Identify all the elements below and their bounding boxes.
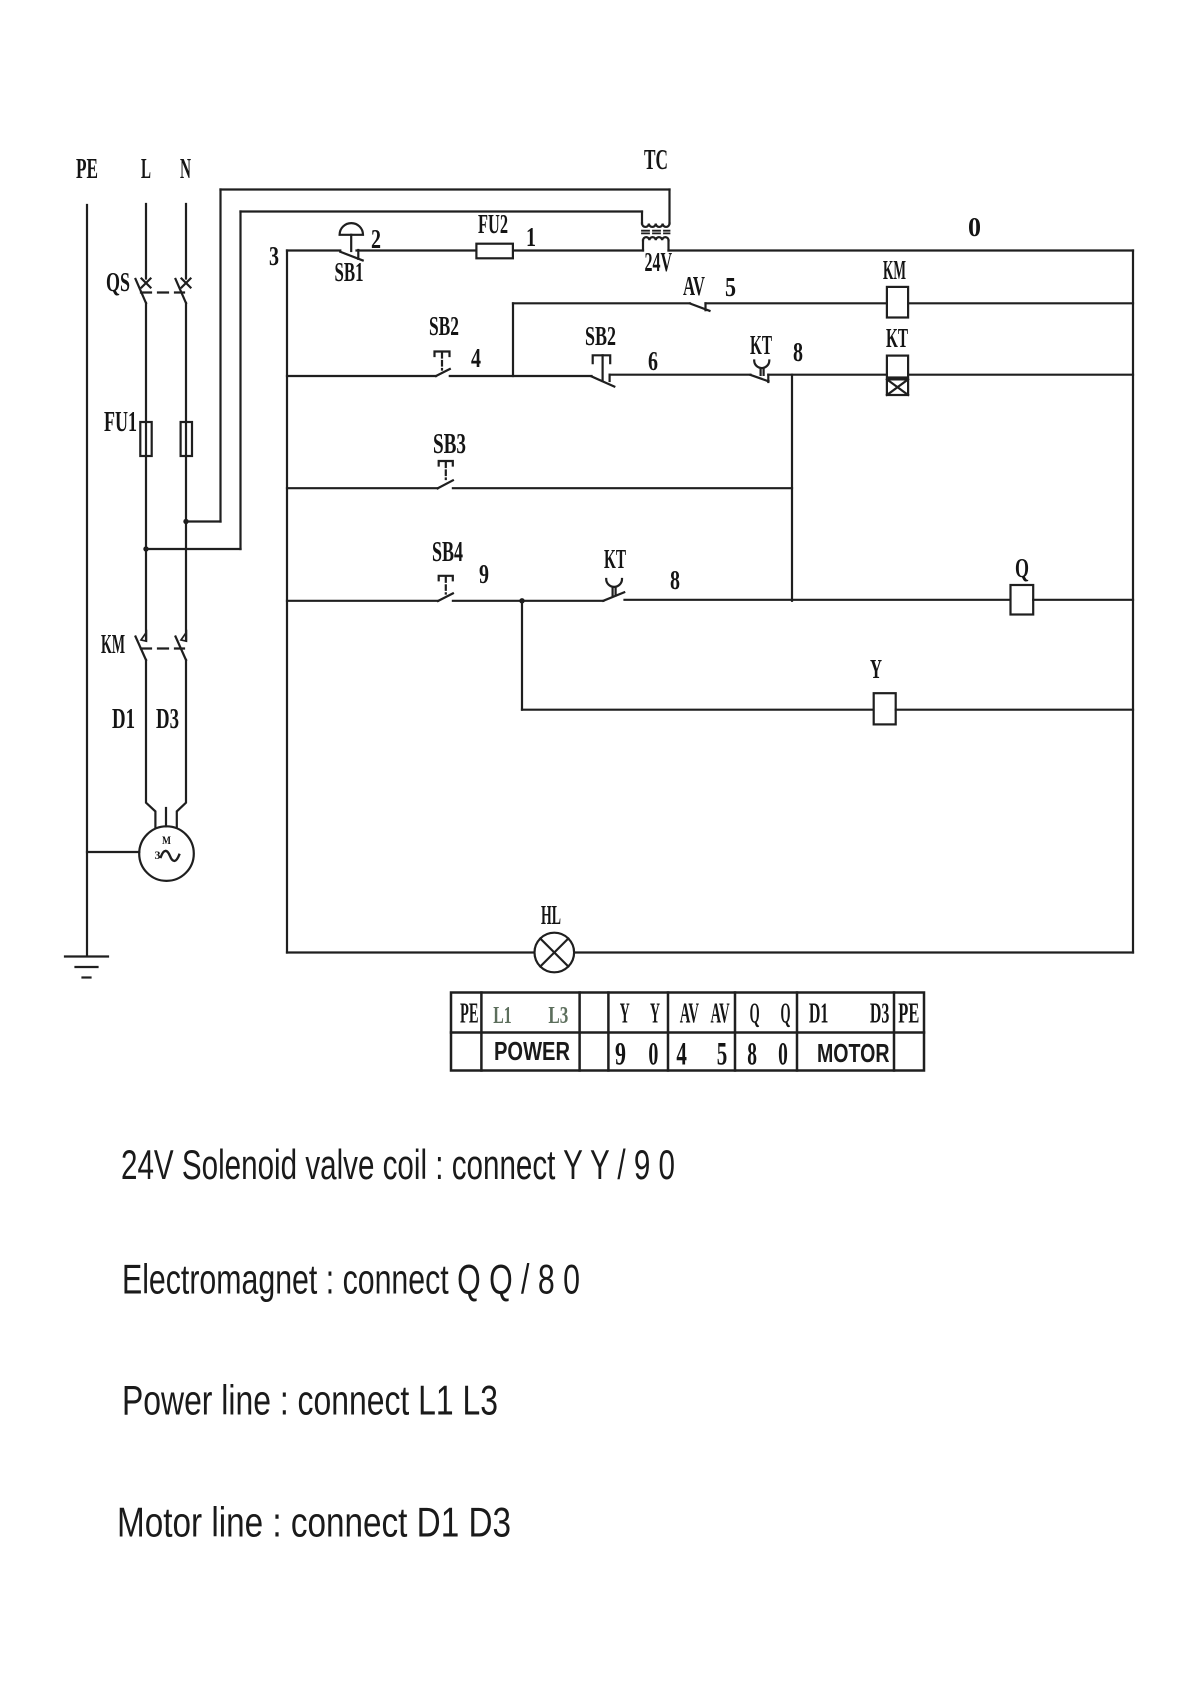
- svg-text:M: M: [162, 833, 171, 847]
- svg-text:5: 5: [725, 272, 736, 302]
- switch QS pole N: [176, 279, 191, 304]
- svg-text:0: 0: [968, 212, 981, 242]
- svg-text:SB4: SB4: [432, 537, 463, 568]
- wire bottom rail left of HL: [287, 951, 535, 953]
- svg-text:8: 8: [747, 1037, 757, 1073]
- wire SB4 row middle: [453, 600, 603, 602]
- svg-text:SB3: SB3: [433, 429, 466, 460]
- svg-text:0: 0: [648, 1037, 658, 1073]
- wire bottom rail right of HL: [574, 951, 1133, 953]
- wire vertical line5 to line4: [512, 303, 514, 376]
- wire line 1 left: [287, 249, 340, 251]
- svg-text:D3: D3: [156, 704, 179, 735]
- svg-text:AV: AV: [711, 999, 730, 1030]
- wire line 4 middle: [450, 375, 592, 377]
- svg-text:8: 8: [670, 565, 680, 595]
- svg-text:6: 6: [648, 346, 658, 376]
- wire SB4 row right: [625, 599, 1011, 601]
- contactor KM mechanical link: [141, 647, 184, 649]
- svg-text:Motor line : connect D1 D: Motor line : connect D1 D3: [117, 1499, 511, 1546]
- wire Y row right: [896, 709, 1133, 711]
- wire PE vertical: [86, 205, 88, 955]
- svg-text:L1: L1: [493, 1003, 511, 1029]
- svg-text:N: N: [180, 154, 191, 185]
- svg-text:L: L: [141, 154, 151, 185]
- wire Q to right rail: [1033, 599, 1133, 601]
- pushbutton SB3 (NO): [438, 461, 453, 488]
- coil KT with delay box: [887, 356, 908, 395]
- svg-text:9: 9: [615, 1037, 626, 1073]
- wire left rail: [286, 251, 288, 953]
- svg-text:24V Solenoid valve coil : con: 24V Solenoid valve coil : connect Y Y / …: [121, 1141, 675, 1188]
- svg-text:D1: D1: [809, 999, 829, 1030]
- svg-text:PE: PE: [76, 154, 98, 185]
- wire line 5 left: [513, 302, 690, 304]
- svg-text:4: 4: [471, 343, 481, 373]
- wire Y row left: [522, 709, 874, 711]
- wire vertical junction column: [791, 375, 793, 601]
- svg-text:AV: AV: [680, 999, 699, 1030]
- svg-text:Q: Q: [781, 999, 791, 1030]
- wire L middle: [145, 303, 147, 641]
- svg-text:8: 8: [793, 337, 803, 367]
- svg-text:SB2: SB2: [585, 321, 616, 351]
- fuse FU1 pole N: [181, 422, 192, 456]
- svg-text:D3: D3: [870, 999, 890, 1030]
- wire motor middle stub: [165, 808, 167, 826]
- wire line 1 middle: [357, 249, 644, 251]
- wire line 6: [610, 374, 751, 376]
- wire D1 to motor: [146, 660, 155, 827]
- solenoid valve Y: [874, 693, 896, 724]
- svg-text:Y: Y: [620, 999, 630, 1030]
- pushbutton SB4 (NO): [438, 576, 453, 601]
- svg-text:D1: D1: [112, 704, 135, 735]
- wire Y branch vertical: [521, 601, 523, 710]
- contactor KM pole L: [136, 632, 147, 660]
- wire top line A: [221, 188, 670, 190]
- svg-text:Y: Y: [870, 654, 882, 684]
- pushbutton SB2 (NO): [435, 352, 450, 377]
- svg-text:5: 5: [717, 1037, 728, 1073]
- wire line 8: [768, 374, 887, 376]
- wire L vertical top: [145, 204, 147, 279]
- svg-text:POWER: POWER: [494, 1036, 570, 1066]
- switch QS mechanical link: [141, 291, 184, 293]
- wire SB3 row right: [453, 487, 792, 489]
- wire line 8 to right rail: [908, 374, 1133, 376]
- fuse FU1 pole L: [140, 422, 151, 456]
- pushbutton SB2 second (NC): [592, 355, 615, 386]
- svg-text:FU2: FU2: [478, 209, 508, 239]
- wire top line B: [241, 210, 643, 212]
- svg-text:PE: PE: [460, 999, 479, 1030]
- wire right rail: [1132, 251, 1134, 953]
- wire N middle: [185, 303, 187, 641]
- wire L branch right: [146, 548, 241, 550]
- coil KM: [887, 287, 908, 318]
- svg-text:KM: KM: [883, 255, 906, 285]
- wire line 4 left: [287, 375, 436, 377]
- motor M: [139, 826, 194, 881]
- svg-text:TC: TC: [644, 145, 668, 176]
- timer contact KT2 (NO delayed): [603, 579, 624, 601]
- wire line 0: [669, 249, 1134, 251]
- svg-text:Power line : connect L1 L3: Power line : connect L1 L3: [122, 1377, 498, 1424]
- pushbutton SB1 (NC mushroom): [340, 223, 363, 260]
- node junction on L: [143, 546, 148, 551]
- node junction Y branch: [519, 598, 524, 603]
- svg-text:9: 9: [479, 559, 489, 589]
- fuse FU2: [476, 244, 513, 259]
- wire PE to motor: [87, 851, 139, 853]
- wire N vertical top: [185, 204, 187, 279]
- wire N branch right: [186, 520, 221, 522]
- svg-text:AV: AV: [683, 271, 705, 301]
- svg-text:3: 3: [155, 848, 161, 862]
- svg-text:Y: Y: [650, 999, 660, 1030]
- svg-text:3: 3: [269, 241, 279, 271]
- ground: [65, 957, 108, 978]
- svg-text:0: 0: [778, 1037, 788, 1073]
- svg-text:4: 4: [676, 1037, 687, 1073]
- svg-text:Q: Q: [1015, 553, 1029, 583]
- wire D3 to motor: [177, 660, 186, 827]
- wire SB4 row left: [287, 600, 438, 602]
- wire vertical to top line A: [219, 190, 221, 522]
- wire vertical to top line B: [239, 212, 241, 550]
- svg-text:KT: KT: [750, 330, 772, 360]
- transformer TC: [642, 224, 670, 251]
- svg-text:PE: PE: [898, 999, 919, 1030]
- relay contact AV (NC): [690, 303, 710, 311]
- svg-text:QS: QS: [106, 267, 130, 297]
- solenoid Q: [1011, 585, 1034, 615]
- node junction on N: [183, 519, 188, 524]
- svg-text:FU1: FU1: [104, 407, 137, 438]
- svg-text:1: 1: [526, 222, 536, 252]
- svg-text:KM: KM: [101, 629, 125, 659]
- svg-text:L3: L3: [548, 1003, 568, 1029]
- wire line 5 right: [706, 302, 887, 304]
- lamp HL: [535, 933, 575, 973]
- contactor KM pole N: [176, 632, 187, 660]
- svg-text:Q: Q: [750, 999, 760, 1030]
- svg-text:Electromagnet : connect Q Q /: Electromagnet : connect Q Q / 8 0: [122, 1256, 580, 1303]
- svg-text:KT: KT: [886, 323, 908, 353]
- svg-text:KT: KT: [604, 544, 626, 574]
- svg-text:MOTOR: MOTOR: [817, 1038, 890, 1068]
- wire down to TC primary right: [668, 190, 670, 224]
- svg-text:SB1: SB1: [335, 257, 364, 287]
- terminal table frame: [451, 993, 924, 1071]
- wire line 5 to right rail: [908, 302, 1133, 304]
- wire down to TC primary left: [641, 212, 643, 224]
- switch QS pole L: [136, 279, 151, 304]
- wire SB3 row left: [287, 487, 438, 489]
- svg-text:SB2: SB2: [429, 311, 459, 341]
- timer contact KT (NC delayed): [751, 361, 770, 383]
- svg-text:HL: HL: [541, 900, 561, 930]
